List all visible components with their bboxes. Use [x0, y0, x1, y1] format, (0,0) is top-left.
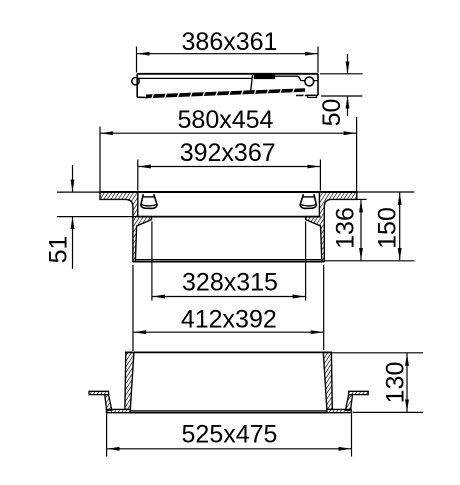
- bottom right wall: [323, 352, 332, 409]
- seat line: [138, 216, 321, 218]
- dim 50 extension top: [320, 73, 363, 75]
- dim 150/136 extension bottom: [324, 260, 414, 262]
- dim 51 arrow bottom: [72, 217, 74, 269]
- rim line: [125, 351, 332, 353]
- svg-text:50: 50: [318, 99, 346, 127]
- svg-text:328x315: 328x315: [182, 268, 278, 296]
- cover rib band: [146, 87, 307, 99]
- dim 386x361 line: [137, 53, 318, 55]
- svg-text:386x361: 386x361: [182, 28, 278, 56]
- svg-text:130: 130: [382, 362, 410, 404]
- cover bottom notch: [308, 95, 317, 97]
- dim 130: [332, 353, 423, 413]
- dim 150 line: [399, 193, 401, 261]
- box bottom inner line: [136, 259, 322, 261]
- dim 328x315: [152, 222, 306, 301]
- frame right profile: [306, 192, 357, 261]
- dim 412x392 line: [134, 331, 324, 333]
- dim 386x361 extension left: [136, 47, 138, 73]
- dim 392x367 line: [138, 166, 320, 168]
- svg-text:412x392: 412x392: [181, 305, 277, 333]
- key recess right: [300, 194, 316, 208]
- svg-text:392x367: 392x367: [180, 139, 276, 167]
- cover rib edge: [251, 75, 253, 93]
- dim 51: [72, 165, 74, 269]
- cover step: [299, 76, 319, 80]
- bottom left anchor web: [105, 395, 112, 411]
- dim 150: [324, 192, 414, 261]
- dim 328x315 line: [152, 296, 305, 298]
- frame top line: [99, 191, 357, 193]
- cover bottom left: [137, 96, 147, 98]
- dim 525x475 extension right: [351, 414, 353, 457]
- dim 412x392 extension left: [132, 265, 134, 351]
- dim 580x454 line: [101, 132, 357, 134]
- cover inner top line: [137, 77, 252, 79]
- cover right edge: [317, 74, 319, 96]
- bottom left foot: [106, 409, 130, 412]
- frame left profile: [100, 192, 152, 261]
- cover key pad: [255, 74, 275, 78]
- dim 130 extension bottom: [353, 411, 424, 413]
- hinge circle left: [132, 78, 139, 85]
- dim 130 extension top: [332, 352, 423, 354]
- dim 328x315 extension right: [305, 222, 307, 301]
- dim 412x392: [133, 265, 324, 351]
- dim 150 extension top: [358, 191, 415, 193]
- dim 580x454 extension right: [356, 117, 358, 191]
- dim 136 extension top: [357, 198, 367, 200]
- svg-text:51: 51: [45, 236, 73, 264]
- dim 50 arrow bottom: [347, 96, 349, 116]
- bottom right anchor flange: [349, 391, 369, 394]
- svg-text:525x475: 525x475: [182, 421, 278, 449]
- svg-text:136: 136: [332, 207, 360, 249]
- dim 580x454 extension left: [99, 127, 101, 192]
- dim 525x475 line: [107, 448, 351, 450]
- bottom right foot: [327, 409, 351, 412]
- key recess left: [141, 194, 157, 208]
- svg-text:580x454: 580x454: [178, 106, 274, 134]
- bottom right anchor web: [345, 395, 352, 411]
- bottom left wall: [125, 352, 134, 409]
- cover left edge: [136, 74, 138, 97]
- lock circle right: [305, 77, 314, 86]
- cover top line: [137, 73, 318, 75]
- cover inner line right of pad: [275, 75, 299, 77]
- dim 392x367 extension right: [319, 160, 321, 191]
- dim 136: [357, 199, 367, 260]
- dim 525x475 extension left: [106, 414, 108, 457]
- dim 412x392 extension right: [323, 265, 325, 350]
- dim 50 arrow top: [347, 54, 349, 74]
- dim 525x475: [107, 414, 352, 457]
- svg-text:150: 150: [374, 207, 402, 249]
- dim 50 extension bottom: [321, 95, 363, 97]
- bottom left anchor flange: [89, 391, 109, 394]
- seat line extension left (51): [57, 216, 138, 218]
- dim 136 line: [360, 200, 362, 260]
- rib band body: [146, 88, 305, 98]
- dim 130 line: [406, 353, 408, 412]
- tub interior bottom inner line: [130, 410, 327, 412]
- dim 386x361 extension right: [317, 47, 319, 73]
- cover bottom right: [296, 94, 318, 96]
- dim 51 arrow top: [72, 165, 74, 192]
- dim 328x315 extension left: [151, 222, 153, 301]
- tub interior bottom line: [130, 412, 327, 414]
- box bottom line: [133, 261, 324, 263]
- dim 51 extension top: [57, 191, 100, 193]
- dim 392x367 extension left: [137, 160, 139, 191]
- dim 50: [320, 54, 363, 116]
